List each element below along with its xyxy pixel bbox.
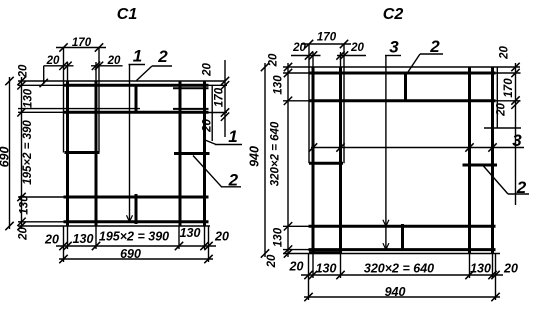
leader 1 right shelf bbox=[215, 144, 242, 146]
extension line y=221.8 left bbox=[18, 221, 64, 223]
bar H4 C2 (y=249.6) bbox=[309, 248, 496, 251]
svg-text:2: 2 bbox=[429, 37, 440, 56]
svg-text:20: 20 bbox=[292, 42, 306, 54]
svg-text:C2: C2 bbox=[383, 6, 404, 23]
extension line bottom edge y=253.5 bbox=[283, 253, 500, 255]
svg-text:130: 130 bbox=[316, 262, 337, 276]
svg-text:1: 1 bbox=[133, 47, 142, 66]
bar V1 C2 (x=313) bbox=[312, 67, 315, 254]
bar H2 C2 (y=100.8) bbox=[309, 99, 496, 102]
bar H3 (y=197) bbox=[64, 196, 209, 199]
svg-text:3: 3 bbox=[512, 131, 522, 150]
dim line 170 (top) bbox=[56, 47, 106, 49]
svg-text:130: 130 bbox=[273, 227, 285, 247]
left outer dim line C2 x=266.5 bbox=[264, 63, 266, 257]
svg-text:170: 170 bbox=[317, 31, 337, 43]
slashes C2 bottom row bbox=[304, 271, 312, 279]
svg-text:940: 940 bbox=[385, 285, 406, 299]
svg-text:1: 1 bbox=[228, 127, 237, 146]
bar H2 (y=112.3) bbox=[64, 111, 209, 114]
slashes C1 690 row bbox=[59, 255, 67, 263]
ext stub above bar V1 C2 bbox=[312, 52, 314, 67]
extension v-line x=63.5 (cap end) bbox=[63, 48, 65, 153]
right dim line x=225 bbox=[224, 60, 226, 137]
extension v-line right C2 x=497.3 bbox=[496, 67, 498, 128]
svg-text:130: 130 bbox=[470, 262, 491, 276]
extension line y=85.3 right bbox=[209, 84, 228, 86]
svg-text:3: 3 bbox=[389, 38, 399, 57]
slashes C1 top 170 bbox=[59, 43, 67, 51]
extension line y=85.3 left bbox=[18, 84, 64, 86]
short bar right lower (y=108.9) bbox=[173, 108, 209, 110]
bar H1 (y=85.3) bbox=[64, 84, 209, 87]
svg-text:20: 20 bbox=[503, 262, 518, 276]
arrowhead leader 1 at bar H4 bbox=[127, 215, 133, 222]
extension line y=73 left bbox=[283, 72, 309, 74]
svg-text:130: 130 bbox=[23, 88, 35, 108]
left inner dim line x=21.5 bbox=[21, 77, 23, 229]
extension line y=128 right bbox=[484, 127, 521, 129]
bar V4 C2 (x=492.5) bbox=[491, 67, 494, 254]
extension line bottom edge y=226 bbox=[18, 225, 210, 227]
svg-text:170: 170 bbox=[503, 78, 515, 98]
slashes on leader 3 at bars bbox=[309, 143, 317, 151]
slashes C2 top 170 bbox=[305, 40, 313, 48]
svg-text:20: 20 bbox=[268, 53, 280, 67]
extension line top edge y=81 bbox=[18, 80, 226, 82]
extension v-line x=344 C2 bbox=[343, 45, 345, 164]
extension line y=108.6 long bbox=[18, 108, 140, 110]
dim line 170 top C2 bbox=[301, 43, 351, 45]
bar V3 (x=180) bbox=[179, 81, 182, 226]
leader 3 horizontal line C2 bbox=[311, 147, 524, 149]
leader 2 top shelf C2 bbox=[420, 53, 443, 55]
svg-text:690: 690 bbox=[0, 147, 12, 168]
svg-text:20: 20 bbox=[202, 119, 214, 133]
bottom extension v-lines C2 bbox=[308, 254, 310, 279]
svg-text:20: 20 bbox=[44, 233, 59, 247]
extension line y=197 left bbox=[18, 196, 64, 198]
extension line y=100.8 right bbox=[496, 100, 521, 102]
arrowhead leader 3 at bar H4 bbox=[383, 243, 389, 250]
extension line y=225.5 left bbox=[283, 225, 309, 227]
short bar right cap (pos 2, y=153.5) bbox=[174, 152, 210, 155]
svg-text:195×2 = 390: 195×2 = 390 bbox=[99, 230, 169, 244]
slashes C2 top 20-20 bbox=[305, 51, 313, 59]
bottom ext to 940 row bbox=[308, 278, 310, 300]
slashes C1 right col bbox=[221, 77, 229, 85]
bottom dim line segments row C2 y=275 bbox=[301, 274, 503, 276]
short bar right upper (y=88.3) bbox=[173, 87, 209, 89]
bottom dim line segments row y=246 bbox=[56, 245, 216, 247]
dim line 20 top-left C2 bbox=[291, 55, 321, 57]
svg-text:940: 940 bbox=[248, 146, 262, 167]
arrowhead leader 3 at bar H3 bbox=[383, 220, 389, 227]
bar V4 (x=204.5) bbox=[203, 81, 206, 226]
extension line y=112.5 right bbox=[209, 112, 228, 114]
bottom extension v-lines bbox=[63, 226, 65, 249]
leader 2 top diagonal C2 bbox=[406, 54, 420, 75]
extension line y=73 right bbox=[496, 72, 521, 74]
slashes C2 left inner col bbox=[284, 63, 292, 71]
svg-text:20: 20 bbox=[202, 63, 214, 77]
extension line top edge C2 y=67 bbox=[283, 66, 520, 68]
left inner dim line C2 x=278.5 bbox=[287, 63, 289, 257]
svg-text:170: 170 bbox=[72, 37, 92, 49]
leader 2 right diagonal bbox=[193, 156, 222, 187]
slashes C1 bottom row bbox=[59, 242, 67, 250]
leader 1 right diagonal bbox=[205, 140, 216, 145]
leader 1 top shelf bbox=[129, 64, 146, 66]
svg-text:20: 20 bbox=[18, 64, 30, 78]
ext stub above bar V1 bbox=[67, 62, 69, 81]
leader 2 right shelf bbox=[221, 186, 241, 188]
slashes C2 right col bbox=[511, 63, 519, 71]
bar V2 C2 (x=340.5) bbox=[339, 67, 342, 254]
bar H1 C2 (y=73) bbox=[309, 72, 496, 75]
svg-text:195×2 = 390: 195×2 = 390 bbox=[22, 120, 34, 185]
short bar bottom-left cap C2 (y=252.6) bbox=[309, 251, 342, 254]
ext stub above bar V2 C2 bbox=[340, 52, 342, 67]
leader 1 vertical bbox=[129, 65, 131, 222]
svg-text:20: 20 bbox=[107, 55, 121, 67]
slashes C2 940 row bbox=[304, 293, 312, 301]
extension v-line x=99 (cap end) bbox=[98, 48, 100, 153]
slashes C1 top 20-20 bbox=[59, 62, 67, 70]
stub at x=43.7 bbox=[43, 66, 45, 84]
right dim line C2 x=515.5 bbox=[515, 63, 517, 205]
dim line 20 top-left bbox=[44, 65, 74, 67]
svg-text:130: 130 bbox=[180, 226, 201, 240]
extension v-line right x=212.2 bbox=[211, 85, 213, 141]
dim line 20 top-right bbox=[91, 65, 123, 67]
leader 2 right diagonal C2 bbox=[483, 166, 508, 195]
short bar bottom C2 (x=402.5) bbox=[401, 224, 404, 251]
short bar left cap C2 (y=163.2) bbox=[309, 162, 343, 165]
bar H4 (y=221.8) bbox=[64, 220, 209, 223]
bar V1 (x=67.5) bbox=[66, 81, 69, 226]
leader 2 top shelf bbox=[152, 65, 172, 67]
slashes C2 left outer col bbox=[261, 63, 269, 71]
svg-text:320×2 = 640: 320×2 = 640 bbox=[364, 262, 434, 276]
slash at stub bottom bbox=[40, 79, 48, 87]
short bar right cap C2 (y=165) bbox=[463, 164, 498, 167]
bar H3 C2 (y=226.3) bbox=[309, 225, 496, 228]
svg-text:C1: C1 bbox=[117, 6, 138, 23]
svg-text:20: 20 bbox=[350, 42, 364, 54]
bottom ext to 690 row bbox=[63, 249, 65, 262]
bottom dim line 690 y=259 bbox=[59, 258, 213, 260]
leader 2 diagonal bbox=[137, 66, 153, 81]
ext stub above bar V2 bbox=[95, 62, 97, 81]
svg-text:20: 20 bbox=[499, 46, 511, 60]
svg-text:690: 690 bbox=[120, 247, 141, 261]
svg-text:130: 130 bbox=[273, 75, 285, 95]
short bar left cap (pos 2, y=152.5) bbox=[65, 151, 100, 154]
bar V3 C2 (x=469.5) bbox=[468, 67, 471, 254]
short bar top C2 (x=405.5) bbox=[404, 72, 407, 102]
leader 3 vertical bbox=[385, 56, 387, 250]
extension line y=248.8 left bbox=[283, 249, 309, 251]
svg-text:320×2 = 640: 320×2 = 640 bbox=[270, 121, 282, 186]
svg-text:20: 20 bbox=[289, 260, 304, 274]
svg-text:20: 20 bbox=[496, 103, 508, 117]
svg-text:170: 170 bbox=[214, 87, 226, 107]
leader 3 top shelf bbox=[385, 55, 401, 57]
left outer dim line x=9.5 bbox=[9, 77, 11, 229]
bottom dim line 940 y=297 bbox=[304, 296, 500, 298]
svg-text:130: 130 bbox=[73, 232, 94, 246]
svg-text:20: 20 bbox=[266, 254, 278, 268]
slashes C1 left outer col bbox=[5, 77, 13, 85]
leader 2 right shelf C2 bbox=[508, 193, 529, 195]
short bar bottom (pos 2, x=136) bbox=[135, 194, 138, 224]
svg-text:20: 20 bbox=[46, 55, 60, 67]
dim line 20 top-right C2 bbox=[337, 55, 366, 57]
short bar top (pos 2, x=136) bbox=[135, 84, 138, 113]
extension v-line x=309 C2 bbox=[308, 45, 310, 164]
svg-text:20: 20 bbox=[214, 230, 229, 244]
svg-text:2: 2 bbox=[157, 47, 168, 66]
extension line y=100.8 left bbox=[283, 100, 309, 102]
svg-text:130: 130 bbox=[19, 195, 31, 215]
slashes C1 left inner col bbox=[17, 77, 25, 85]
svg-text:20: 20 bbox=[18, 227, 30, 241]
bar V2 (x=96) bbox=[95, 81, 98, 226]
